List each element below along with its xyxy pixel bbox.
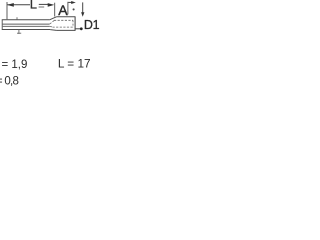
collar right edge [74,16,76,30]
tube inner line lower [2,25,50,27]
svg-text:D1: D1 [84,18,100,32]
collar top edge [56,16,75,18]
dimension L extension line right [54,3,56,17]
svg-text:A: A [58,2,68,18]
svg-text:L: L [30,0,37,11]
bore hidden dashed bottom [53,26,74,28]
bore flare dashed diagonal top [50,20,55,24]
flare top diagonal [49,17,56,20]
tube inner line upper [2,23,50,25]
svg-text:= 1,9: = 1,9 [1,59,27,71]
svg-text:L = 17: L = 17 [58,57,91,71]
small cross dash below tube [17,32,21,34]
bore hidden dashed top [54,19,73,21]
leader line to dot [75,28,80,30]
D1 down arrowhead [81,12,84,17]
bore flare dashed diagonal bottom [50,25,53,28]
tick below tube [18,30,20,34]
tick above tube [16,17,18,20]
ghost dash under dimension line [39,6,45,8]
ferrule tube left edge [1,20,3,30]
collar bottom edge [57,29,76,31]
dimension L extension line left [6,2,8,19]
tube top edge [2,19,50,21]
flare bottom diagonal [50,29,56,32]
arrow pointing right from A [68,1,72,3]
vertical line right of A [67,2,69,15]
dimension L left arrowhead [7,3,14,7]
dimension L right arrowhead [48,3,55,7]
dimension L line left segment [7,4,30,6]
tube bottom edge [2,29,50,31]
leader dot [80,27,83,30]
small dot below A arrow [73,8,75,10]
dimension L line right segment [39,3,49,5]
bore hidden dashed right [72,20,74,27]
D1 down arrow line [82,2,84,12]
svg-text:= 0,8: = 0,8 [0,76,19,88]
